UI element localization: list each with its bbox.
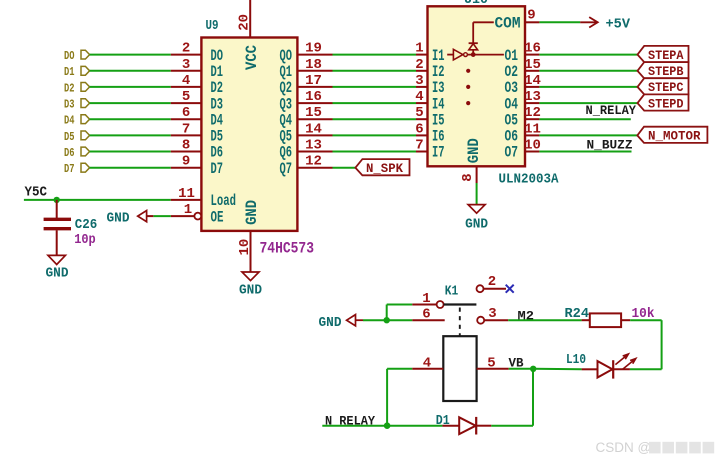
hierarchical label D0: [64, 49, 90, 63]
svg-text:D1: D1: [64, 65, 75, 79]
capacitor C26: [44, 200, 71, 256]
svg-text:CSDN @: CSDN @: [596, 440, 652, 455]
wire VB junction to LED: [533, 368, 581, 371]
U10 pin 5 (I5): [415, 105, 444, 129]
svg-text:5: 5: [487, 355, 495, 371]
svg-text:1: 1: [184, 202, 192, 218]
power symbol GND (at OE): [107, 211, 154, 227]
U10 pin 3 (I3): [415, 73, 444, 97]
hierarchical label D2: [64, 81, 90, 95]
U10 internal buffer symbol: [447, 49, 504, 60]
svg-text:8: 8: [182, 138, 190, 154]
svg-text:4: 4: [415, 89, 423, 105]
svg-text:D3: D3: [64, 98, 75, 112]
svg-text:6: 6: [422, 307, 430, 323]
svg-text:GND: GND: [107, 211, 130, 227]
wire OE to GND: [153, 215, 171, 217]
svg-text:GND: GND: [46, 266, 69, 282]
svg-text:I7: I7: [432, 144, 445, 162]
U10 pin 6 (I6): [415, 121, 444, 145]
wire U9 Q5 to U10 I6: [333, 134, 417, 136]
power symbol GND (below U10): [465, 205, 488, 233]
U10 pin 13 (O4): [505, 89, 541, 113]
relay K1 actuator dashed line: [459, 308, 461, 337]
no-connect X on pin 2: [506, 285, 514, 293]
U10 pin 8 (GND) stub: [460, 166, 477, 183]
junction node Y5C/C26: [54, 197, 60, 203]
U10 pin 2 (I2): [415, 57, 444, 81]
global label STEPA: [638, 46, 689, 63]
svg-text:11: 11: [178, 186, 195, 202]
U9 pin 3 (D1): [171, 57, 223, 81]
local label N_RELAY (bottom): [325, 414, 375, 429]
local label VB: [509, 356, 524, 371]
wire K1 pin5 to VB junction: [509, 368, 534, 370]
wire U9 Q1 to U10 I2: [333, 70, 417, 72]
wire U10 GND: [476, 183, 478, 205]
wire U10 O2 to STEPB: [539, 70, 637, 72]
relay K1 pin 4: [412, 355, 443, 371]
wire D5 label to U9 pin 7: [90, 134, 171, 136]
svg-text:N_RELAY: N_RELAY: [586, 103, 637, 118]
svg-text:20: 20: [237, 14, 253, 31]
U9 pin 2 (D0): [171, 41, 223, 65]
svg-text:16: 16: [305, 89, 322, 105]
svg-text:7: 7: [415, 138, 423, 154]
wire U9 Q6 to U10 I7: [333, 151, 417, 153]
svg-text:8: 8: [460, 173, 476, 181]
U10 pin 4 (I4): [415, 89, 444, 113]
wire D7 label to U9 pin 9: [90, 167, 171, 169]
global label N_SPK: [355, 159, 409, 176]
svg-text:COM: COM: [495, 15, 521, 33]
junction node VB: [530, 366, 536, 372]
svg-text:D6: D6: [64, 146, 75, 160]
svg-text:13: 13: [524, 89, 541, 105]
reference U10: [464, 0, 488, 8]
global label STEPB: [638, 62, 689, 79]
U10 pin 1 (I1): [415, 41, 444, 65]
wire junction up to K1 pin 1: [387, 305, 413, 321]
svg-text:STEPB: STEPB: [648, 65, 684, 79]
U10 pin 16 (O1): [505, 41, 541, 65]
svg-text:OE: OE: [211, 208, 224, 226]
power symbol GND (relay): [319, 315, 364, 331]
U9 pin 8 (D6): [171, 138, 223, 162]
svg-text:GND: GND: [465, 216, 488, 232]
wire D4 label to U9 pin 6: [90, 118, 171, 120]
U10 internal junction dot: [471, 52, 476, 57]
svg-text:O7: O7: [505, 144, 519, 162]
value 10k: [632, 306, 655, 322]
svg-text:N_MOTOR: N_MOTOR: [648, 130, 701, 144]
svg-text:GND: GND: [319, 315, 342, 331]
svg-text:DO: DO: [64, 49, 75, 63]
svg-text:12: 12: [524, 105, 541, 121]
pin name VCC (U9 pin 20): [243, 45, 261, 70]
wire U10 O1 to STEPA: [539, 54, 637, 56]
wire Y5C to U9 pin 11: [24, 199, 171, 201]
svg-text:L10: L10: [566, 352, 586, 368]
hierarchical label D6: [64, 146, 90, 160]
wire GND to K1 pin 6: [363, 319, 412, 321]
value 10p: [74, 232, 96, 248]
svg-text:18: 18: [305, 57, 322, 73]
IC U10 ULN2003A body: [428, 6, 526, 166]
U9 pin 10 (GND) stub: [237, 231, 253, 272]
U10 pin 9 (COM): [525, 8, 539, 24]
svg-text:19: 19: [305, 41, 322, 57]
svg-text:6: 6: [415, 121, 423, 137]
svg-text:5: 5: [182, 89, 190, 105]
U9 pin 16 (Q3): [280, 89, 333, 113]
U10 pin 7 (I7): [415, 138, 444, 162]
local label N_BUZZ (top): [587, 137, 633, 152]
wire D1 label to U9 pin 3: [90, 70, 171, 72]
wire D2 label to U9 pin 4: [90, 86, 171, 88]
wire D3 label to U9 pin 5: [90, 102, 171, 104]
local label Y5C: [25, 186, 48, 201]
U9 pin 6 (D4): [171, 105, 223, 129]
wire N_RELAY to D1 anode: [322, 425, 442, 427]
svg-text:GND: GND: [465, 138, 483, 163]
svg-text:N_SPK: N_SPK: [366, 162, 403, 176]
U10 pin 15 (O2): [505, 57, 541, 81]
svg-text:2: 2: [415, 57, 423, 73]
watermark: [596, 440, 715, 455]
svg-text:3: 3: [415, 73, 423, 89]
reference R24: [565, 306, 590, 322]
global label N_MOTOR: [637, 127, 707, 144]
wire D6 label to U9 pin 8: [90, 151, 171, 153]
U9 pin 20 (VCC) wire from top: [237, 0, 253, 38]
svg-text:4: 4: [182, 73, 190, 89]
U9 pin 18 (Q1): [280, 57, 333, 81]
U9 pin 15 (Q4): [280, 105, 333, 129]
hierarchical label D5: [64, 130, 90, 144]
U9 pin 9 (D7): [171, 154, 223, 178]
global label STEPC: [638, 78, 689, 95]
U9 pin 14 (Q5): [280, 121, 333, 145]
wire VB junction down to D1 cathode: [491, 369, 533, 426]
svg-text:1: 1: [415, 41, 423, 57]
svg-text:K1: K1: [445, 283, 459, 299]
wire U10 O3 to STEPC: [539, 86, 637, 88]
global label STEPD: [638, 94, 689, 111]
svg-text:Q7: Q7: [280, 160, 293, 178]
svg-text:14: 14: [524, 73, 541, 89]
svg-text:5: 5: [415, 105, 423, 121]
svg-text:+5V: +5V: [606, 16, 631, 32]
wire COM to +5V: [539, 21, 580, 23]
junction node N_RELAY: [384, 422, 391, 429]
svg-text:D7: D7: [64, 162, 75, 176]
reference L10: [566, 352, 586, 368]
resistor R24: [582, 313, 631, 327]
svg-text:3: 3: [182, 57, 190, 73]
svg-text:14: 14: [305, 121, 322, 137]
svg-text:M2: M2: [518, 309, 535, 324]
svg-text:3: 3: [488, 306, 496, 322]
hierarchical label D3: [64, 98, 90, 112]
svg-text:GND: GND: [239, 283, 262, 299]
svg-text:1: 1: [422, 291, 430, 307]
svg-text:2: 2: [488, 274, 496, 290]
hierarchical label D1: [64, 65, 90, 79]
local label N_RELAY (top): [586, 103, 637, 118]
svg-text:U10: U10: [464, 0, 488, 8]
local label M2: [518, 309, 535, 324]
reference D1: [436, 413, 450, 429]
svg-text:9: 9: [182, 154, 190, 170]
U9 pin 13 (Q6): [280, 138, 333, 162]
svg-text:74HC573: 74HC573: [260, 240, 315, 258]
U10 internal repeat dots: [466, 69, 470, 105]
wire O6 to N_MOTOR: [539, 134, 637, 136]
svg-text:D5: D5: [64, 130, 75, 144]
svg-text:D4: D4: [64, 114, 75, 128]
U9 pin 7 (D5): [171, 121, 223, 145]
svg-text:2: 2: [182, 41, 190, 57]
wire U9 Q7 to N_SPK label: [333, 167, 356, 169]
pin name GND (U9 pin 10): [243, 200, 261, 225]
U9 pin 5 (D3): [171, 89, 223, 113]
U9 pin 19 (Q0): [280, 41, 333, 65]
U9 pin 17 (Q2): [280, 73, 333, 97]
relay K1 switch blade: [444, 303, 477, 305]
svg-text:15: 15: [524, 57, 541, 73]
U9 pin 12 (Q7): [280, 154, 333, 178]
hierarchical label D4: [64, 114, 90, 128]
junction node GND/K1: [384, 317, 390, 323]
U10 pin 14 (O3): [505, 73, 541, 97]
U10 pin 10 (O7): [505, 138, 541, 162]
svg-text:C26: C26: [75, 217, 98, 233]
U10 pin 11 (O6): [505, 121, 541, 145]
svg-text:GND: GND: [243, 200, 261, 225]
U10 pin 12 (O5): [505, 105, 541, 129]
relay K1 pin 5: [477, 355, 509, 371]
U9 pin 11 (Load): [171, 186, 236, 210]
svg-text:D2: D2: [64, 81, 75, 95]
wire U9 Q0 to U10 I1: [333, 54, 417, 56]
svg-text:N_BUZZ: N_BUZZ: [587, 137, 633, 152]
relay K1 pin 6: [412, 307, 444, 323]
relay K1 pin 2 (unconnected): [477, 274, 507, 292]
power symbol GND (below U9): [239, 272, 262, 299]
reference C26: [75, 217, 98, 233]
wire O7 N_BUZZ: [539, 151, 631, 153]
wire O5 N_RELAY: [539, 118, 630, 120]
svg-text:17: 17: [305, 73, 322, 89]
pin name COM (U10 pin 9): [495, 15, 521, 33]
svg-text:9: 9: [527, 8, 535, 24]
svg-text:15: 15: [305, 105, 322, 121]
wire K1 pin4 to left riser: [387, 369, 412, 426]
svg-text:U9: U9: [206, 18, 219, 34]
svg-text:12: 12: [305, 154, 322, 170]
U9 pin 1 (OE, inverted): [171, 202, 224, 226]
svg-text:13: 13: [305, 138, 322, 154]
relay K1 pin 3: [477, 306, 508, 324]
wire U9 Q3 to U10 I4: [333, 102, 417, 104]
U10 internal COM diode network: [469, 22, 494, 54]
value 74HC573: [260, 240, 315, 258]
svg-text:10p: 10p: [74, 232, 96, 248]
svg-text:D7: D7: [211, 160, 224, 178]
svg-text:STEPC: STEPC: [648, 81, 684, 95]
value ULN2003A: [499, 171, 560, 187]
svg-text:STEPA: STEPA: [648, 49, 684, 63]
svg-text:VCC: VCC: [243, 45, 261, 70]
IC U9 74HC573 body: [201, 38, 297, 231]
svg-text:ULN2003A: ULN2003A: [499, 171, 560, 187]
wire R24 to LED cathode riser: [630, 320, 662, 369]
svg-text:10: 10: [524, 138, 541, 154]
wire U9 Q4 to U10 I5: [333, 118, 417, 120]
svg-text:10: 10: [237, 239, 253, 256]
relay K1 pin 1: [412, 291, 443, 308]
LED L10: [582, 360, 630, 378]
power symbol GND (below C26): [46, 255, 69, 281]
power symbol +5V: [580, 16, 630, 32]
svg-text:6: 6: [182, 105, 190, 121]
wire U9 Q2 to U10 I3: [333, 86, 417, 88]
relay K1 coil body: [443, 336, 476, 401]
svg-text:16: 16: [524, 41, 541, 57]
wire K1 pin 3 to R24: [508, 319, 581, 321]
svg-text:STEPD: STEPD: [648, 97, 684, 111]
reference K1: [445, 283, 459, 299]
svg-text:11: 11: [524, 121, 541, 137]
wire D0 label to U9 pin 2: [90, 54, 171, 56]
wire U10 O4 to STEPD: [539, 102, 637, 104]
reference U9: [206, 18, 219, 34]
diode D1: [442, 417, 491, 435]
svg-text:Y5C: Y5C: [25, 186, 48, 201]
svg-text:7: 7: [182, 121, 190, 137]
svg-text:4: 4: [423, 355, 431, 371]
LED L10 arrows: [615, 354, 635, 369]
U9 pin 4 (D2): [171, 73, 223, 97]
pin name GND (U10 pin 8): [465, 138, 483, 163]
hierarchical label D7: [64, 162, 90, 176]
